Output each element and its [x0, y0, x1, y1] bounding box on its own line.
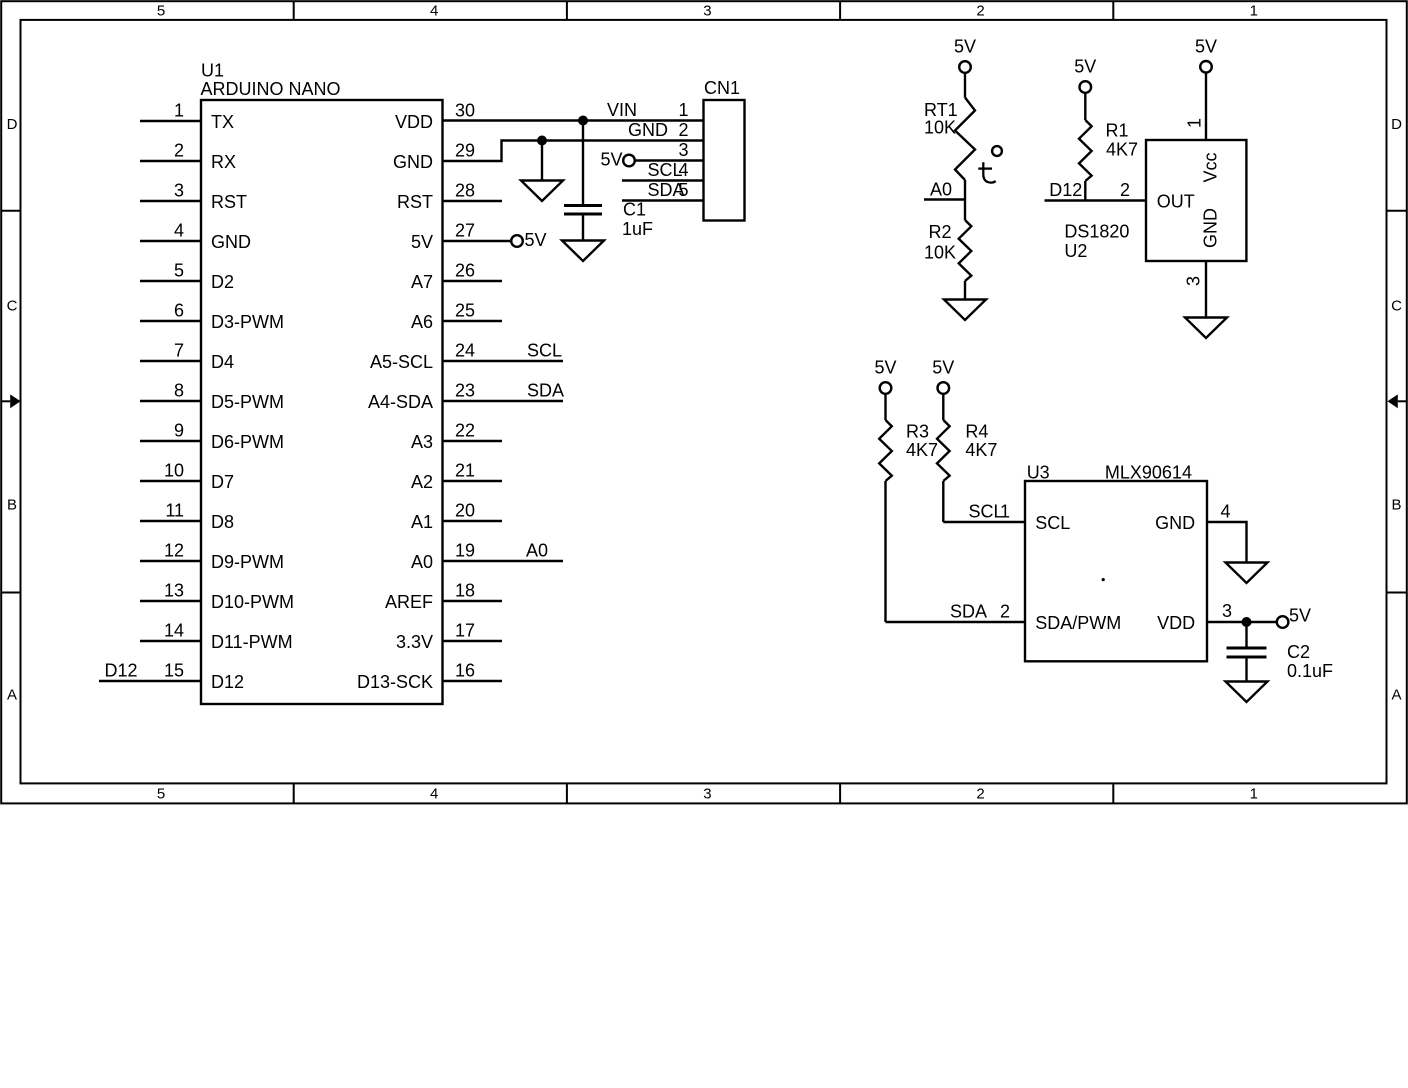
resistor R2 [959, 220, 972, 281]
svg-text:DS1820: DS1820 [1064, 222, 1129, 242]
svg-text:5V: 5V [954, 37, 976, 57]
svg-text:1: 1 [678, 100, 688, 120]
svg-text:SCL: SCL [527, 341, 562, 361]
svg-text:18: 18 [455, 581, 475, 601]
wire 5V to R1 [1084, 93, 1086, 120]
row dividers left [1, 211, 20, 593]
U1 value label ARDUINO NANO [201, 79, 341, 99]
U1 pin 22 name A3 [411, 432, 433, 452]
svg-text:U2: U2 [1064, 241, 1087, 261]
R4 reference label [965, 421, 988, 441]
U1 pin 10 number [164, 461, 184, 481]
U1 pin 30 number [455, 101, 475, 121]
svg-text:5: 5 [174, 261, 184, 281]
U1 reference label [201, 61, 224, 81]
U3 pin 1 name SCL [1035, 513, 1070, 533]
svg-text:D9-PWM: D9-PWM [211, 552, 284, 572]
CN1 pin 5 number [678, 180, 688, 200]
U1 pin 14 number [164, 621, 184, 641]
U3 pin 2 number [1000, 602, 1010, 622]
R1 value label 4K7 [1106, 139, 1138, 159]
svg-text:10: 10 [164, 461, 184, 481]
svg-text:B: B [7, 497, 17, 514]
svg-text:C: C [1391, 298, 1402, 315]
C1 reference label [623, 200, 646, 220]
wire R1 to D12 net [1084, 181, 1086, 201]
svg-text:A2: A2 [411, 472, 433, 492]
net label D12 at U1 pin 15 [105, 661, 138, 681]
CN1 pin 3 number [678, 140, 688, 160]
svg-text:D10-PWM: D10-PWM [211, 592, 294, 612]
net label D12 at U2 [1049, 180, 1082, 200]
U1 pin 3 RST wire [140, 200, 201, 202]
U1 pin 4 GND wire [140, 240, 201, 242]
svg-text:VDD: VDD [395, 112, 433, 132]
resistor R4 [937, 420, 950, 481]
U1 pin 2 name RX [211, 152, 236, 172]
power flag 5V above R3 [874, 358, 896, 394]
U1 pin 9 D6-PWM wire [140, 440, 201, 442]
wire junction to C2 [1245, 622, 1247, 648]
power flag 5V at U3 pin3 [1277, 606, 1311, 628]
wire node A0 [924, 198, 965, 200]
U1 pin 29 name GND [393, 152, 433, 172]
svg-text:C1: C1 [623, 200, 646, 220]
svg-text:GND: GND [393, 152, 433, 172]
U1 pin 25 name A6 [411, 312, 433, 332]
junction on GND wire [537, 136, 547, 146]
CN1 pin 4 number [678, 160, 688, 180]
svg-text:3: 3 [703, 2, 711, 19]
U1 pin 21 number [455, 461, 475, 481]
svg-text:RST: RST [211, 192, 247, 212]
svg-text:A6: A6 [411, 312, 433, 332]
U1 pin 24 number [455, 341, 475, 361]
svg-text:2: 2 [678, 120, 688, 140]
svg-text:A: A [1391, 686, 1401, 703]
centre arrow left [1, 394, 20, 408]
net label SDA at CN1 pin5 [648, 180, 685, 200]
svg-text:D12: D12 [1049, 180, 1082, 200]
U3 pin 1 number [1000, 502, 1010, 522]
U1 pin 28 RST wire [443, 200, 503, 202]
net label A0 at U1 pin19 [526, 541, 548, 561]
wire R2 to ground [964, 281, 966, 300]
svg-text:U3: U3 [1027, 463, 1050, 483]
svg-text:5V: 5V [525, 230, 547, 250]
U1 pin 18 number [455, 581, 475, 601]
U1 pin 17 number [455, 621, 475, 641]
junction at C2 top node [1242, 617, 1252, 627]
IC U2 body [1146, 140, 1246, 261]
svg-text:R4: R4 [965, 421, 988, 441]
CN1 pin 2 number [678, 120, 688, 140]
wire junction to C1 [582, 121, 584, 206]
svg-text:6: 6 [174, 301, 184, 321]
svg-text:2: 2 [1000, 602, 1010, 622]
svg-text:29: 29 [455, 141, 475, 161]
wire RT1 to node A0 [964, 180, 966, 200]
U1 pin 23 number [455, 381, 475, 401]
U1 pin 15 D12 wire [99, 680, 201, 682]
U1 pin 23 A4-SDA wire [443, 400, 564, 402]
svg-text:5V: 5V [1289, 606, 1311, 626]
U1 pin 13 number [164, 581, 184, 601]
CN1 reference label [704, 78, 740, 98]
svg-text:5V: 5V [932, 358, 954, 378]
U1 pin 14 name D11-PWM [211, 632, 293, 652]
svg-text:MLX90614: MLX90614 [1105, 463, 1192, 483]
svg-text:GND: GND [628, 120, 668, 140]
U1 pin 19 number [455, 541, 475, 561]
U1 pin 20 number [455, 501, 475, 521]
U1 pin 15 name D12 [211, 672, 244, 692]
U1 pin 8 number [174, 381, 184, 401]
svg-text:TX: TX [211, 112, 234, 132]
centre arrow right [1388, 394, 1407, 408]
U1 pin 16 D13-SCK wire [443, 680, 503, 682]
svg-text:D11-PWM: D11-PWM [211, 632, 293, 652]
capacitor C2 [1227, 648, 1267, 657]
CN1 pin 1 number [678, 100, 688, 120]
wire VDD U1 pin30 to CN1 pin1 (VIN) [443, 119, 704, 121]
svg-text:GND: GND [1201, 208, 1221, 248]
svg-text:Vcc: Vcc [1201, 152, 1221, 182]
wire 5V to U2 Vcc pin1 [1205, 73, 1207, 140]
svg-text:2: 2 [976, 786, 984, 803]
ground symbol below GND wire [521, 141, 563, 202]
column dividers top [294, 1, 1114, 20]
svg-text:B: B [1391, 497, 1401, 514]
U3 pin 3 name VDD [1157, 613, 1195, 633]
net label GND [628, 120, 668, 140]
U1 pin 15 number [164, 661, 184, 681]
R3 value label 4K7 [906, 440, 938, 460]
R3 reference label [906, 421, 929, 441]
svg-text:7: 7 [174, 341, 184, 361]
connector CN1 body [704, 100, 745, 221]
U3 value label MLX90614 [1105, 463, 1192, 483]
svg-text:4K7: 4K7 [906, 440, 938, 460]
svg-text:27: 27 [455, 221, 475, 241]
svg-text:5V: 5V [411, 232, 433, 252]
svg-text:R2: R2 [929, 222, 952, 242]
U1 pin 27 number [455, 221, 475, 241]
svg-text:2: 2 [1120, 180, 1130, 200]
svg-text:D8: D8 [211, 512, 234, 532]
U1 pin 16 name D13-SCK [357, 672, 433, 692]
svg-text:A5-SCL: A5-SCL [370, 352, 433, 372]
U1 pin 5 number [174, 261, 184, 281]
svg-text:3: 3 [703, 786, 711, 803]
U1 pin 28 name RST [397, 192, 433, 212]
svg-text:D13-SCK: D13-SCK [357, 672, 433, 692]
column labels top [157, 2, 1258, 19]
U3 reference label [1027, 463, 1050, 483]
wire 5V to R4 [942, 394, 944, 420]
wire SCL net to U3 [943, 521, 1025, 523]
ground symbol below R2 [944, 300, 986, 321]
R2 reference label [929, 222, 952, 242]
U1 pin 4 name GND [211, 232, 251, 252]
U1 pin 2 number [174, 141, 184, 161]
U1 pin 1 name TX [211, 112, 234, 132]
R1 reference label [1106, 121, 1129, 141]
U1 pin 19 name A0 [411, 552, 433, 572]
svg-text:21: 21 [455, 461, 475, 481]
svg-text:1: 1 [1250, 786, 1258, 803]
svg-text:23: 23 [455, 381, 475, 401]
resistor R1 [1079, 120, 1092, 181]
U1 pin 6 D3-PWM wire [140, 320, 201, 322]
svg-text:D: D [7, 116, 18, 133]
RT1 value label 10K [924, 118, 956, 138]
svg-text:C: C [7, 298, 18, 315]
U1 pin 14 D11-PWM wire [140, 640, 201, 642]
R4 value label 4K7 [965, 440, 997, 460]
U1 pin 10 D7 wire [140, 480, 201, 482]
U1 pin 11 name D8 [211, 512, 234, 532]
wire C1 to ground [582, 214, 584, 241]
net label VIN [607, 100, 637, 120]
RT1 reference label [924, 100, 958, 120]
U1 pin 5 name D2 [211, 272, 234, 292]
svg-text:8: 8 [174, 381, 184, 401]
wire U3 VDD pin3 to 5V [1207, 621, 1277, 623]
svg-text:AREF: AREF [385, 592, 433, 612]
U1 pin 22 number [455, 421, 475, 441]
U1 pin 16 number [455, 661, 475, 681]
svg-text:A0: A0 [930, 180, 952, 200]
svg-text:5V: 5V [1195, 36, 1217, 56]
wire node A0 to R2 [964, 200, 966, 221]
U1 pin 23 name A4-SDA [368, 392, 433, 412]
svg-text:1: 1 [1185, 118, 1205, 128]
U1 pin 11 number [165, 501, 184, 521]
net label SCL at U1 pin24 [527, 341, 562, 361]
U1 pin 12 name D9-PWM [211, 552, 284, 572]
U2 pin 3 number [1184, 276, 1204, 286]
U1 pin 29 number [455, 141, 475, 161]
wire C2 to ground [1245, 657, 1247, 682]
sheet outer border [1, 1, 1407, 803]
svg-text:A0: A0 [411, 552, 433, 572]
U1 pin 13 D10-PWM wire [140, 600, 201, 602]
junction at C1 top node [578, 116, 588, 126]
svg-text:4K7: 4K7 [1106, 139, 1138, 159]
svg-text:1: 1 [1000, 502, 1010, 522]
U2 pin 2 number [1120, 180, 1130, 200]
U3 symbol dot [1102, 578, 1105, 581]
svg-text:SDA/PWM: SDA/PWM [1035, 613, 1121, 633]
svg-text:RST: RST [397, 192, 433, 212]
svg-text:1: 1 [174, 101, 184, 121]
svg-text:26: 26 [455, 261, 475, 281]
svg-text:22: 22 [455, 421, 475, 441]
U1 pin 8 D5-PWM wire [140, 400, 201, 402]
U3 pin 3 number [1222, 601, 1232, 621]
U1 pin 27 name 5V [411, 232, 433, 252]
column dividers bottom [294, 783, 1114, 803]
U2 value label DS1820 [1064, 222, 1129, 242]
svg-text:19: 19 [455, 541, 475, 561]
svg-text:20: 20 [455, 501, 475, 521]
ground symbol below U3 pin4 [1226, 563, 1268, 584]
svg-text:A1: A1 [411, 512, 433, 532]
U1 pin 5 D2 wire [140, 280, 201, 282]
svg-text:30: 30 [455, 101, 475, 121]
svg-text:3: 3 [1222, 601, 1232, 621]
U1 pin 21 A2 wire [443, 480, 503, 482]
row labels right [1391, 116, 1402, 703]
net label SCL at CN1 pin4 [648, 160, 683, 180]
power flag 5V above RT1 [954, 37, 976, 73]
svg-text:D12: D12 [105, 661, 138, 681]
U1 pin 10 name D7 [211, 472, 234, 492]
svg-text:D12: D12 [211, 672, 244, 692]
U1 pin 7 D4 wire [140, 360, 201, 362]
svg-text:SCL: SCL [969, 502, 1004, 522]
wire CN1 pin5 (SDA) [622, 199, 704, 201]
svg-text:5V: 5V [600, 150, 622, 170]
ground symbol below U2 [1185, 318, 1227, 339]
svg-text:14: 14 [164, 621, 184, 641]
U1 pin 19 A0 wire [443, 560, 564, 562]
wire U2 GND pin3 to ground [1205, 261, 1207, 318]
U1 pin 4 number [174, 221, 184, 241]
svg-text:SDA: SDA [950, 602, 987, 622]
wire 5V to RT1 [964, 73, 966, 98]
svg-text:SDA: SDA [648, 180, 685, 200]
power flag 5V above R4 [932, 358, 954, 394]
wire R4 to SCL net [942, 481, 944, 522]
svg-text:VDD: VDD [1157, 613, 1195, 633]
U1 pin 21 name A2 [411, 472, 433, 492]
power flag 5V at U1 pin27 [511, 230, 546, 250]
U3 pin 4 number [1221, 502, 1231, 522]
ground symbol below C1 [562, 241, 604, 262]
svg-text:4: 4 [174, 221, 184, 241]
capacitor C1 [564, 206, 602, 215]
U1 pin 3 name RST [211, 192, 247, 212]
svg-text:28: 28 [455, 181, 475, 201]
U1 pin 9 number [174, 421, 184, 441]
svg-text:C2: C2 [1287, 642, 1310, 662]
U1 pin 24 A5-SCL wire [443, 360, 564, 362]
svg-text:4: 4 [430, 786, 438, 803]
svg-text:5: 5 [157, 786, 165, 803]
svg-text:4K7: 4K7 [965, 440, 997, 460]
svg-text:16: 16 [455, 661, 475, 681]
svg-text:U1: U1 [201, 61, 224, 81]
svg-text:A0: A0 [526, 541, 548, 561]
svg-text:R1: R1 [1106, 121, 1129, 141]
U3 pin 2 name SDA/PWM [1035, 613, 1121, 633]
U1 pin 11 D8 wire [140, 520, 201, 522]
C2 reference label [1287, 642, 1310, 662]
svg-text:1: 1 [1250, 2, 1258, 19]
svg-text:2: 2 [976, 2, 984, 19]
svg-text:A: A [7, 686, 17, 703]
U1 pin 24 name A5-SCL [370, 352, 433, 372]
svg-text:15: 15 [164, 661, 184, 681]
wire SDA net to U3 [886, 621, 1026, 623]
svg-text:D: D [1391, 116, 1402, 133]
svg-text:13: 13 [164, 581, 184, 601]
svg-text:4: 4 [430, 2, 438, 19]
U1 pin 20 A1 wire [443, 520, 503, 522]
thermistor t-degree icon [978, 146, 1002, 183]
wire GND U1 pin29 jog to CN1 pin2 [443, 141, 704, 162]
svg-text:GND: GND [211, 232, 251, 252]
svg-text:10K: 10K [924, 243, 956, 263]
U1 pin 3 number [174, 181, 184, 201]
svg-text:D7: D7 [211, 472, 234, 492]
U3 pin 4 name GND [1155, 513, 1195, 533]
U1 pin 28 number [455, 181, 475, 201]
U1 pin 22 A3 wire [443, 440, 503, 442]
svg-text:SCL: SCL [1035, 513, 1070, 533]
svg-text:12: 12 [164, 541, 184, 561]
power flag 5V at CN1 pin3 [600, 150, 634, 170]
row labels left [7, 116, 18, 703]
R2 value label 10K [924, 243, 956, 263]
U1 pin 18 AREF wire [443, 600, 503, 602]
IC U3 body [1025, 481, 1207, 661]
svg-text:4: 4 [1221, 502, 1231, 522]
svg-text:D6-PWM: D6-PWM [211, 432, 284, 452]
net label SDA at U1 pin23 [527, 381, 564, 401]
svg-text:D4: D4 [211, 352, 234, 372]
U1 pin 9 name D6-PWM [211, 432, 284, 452]
U1 pin 30 name VDD [395, 112, 433, 132]
U1 pin 13 name D10-PWM [211, 592, 294, 612]
sheet inner border [21, 20, 1387, 784]
wire R3 to SDA net [884, 481, 886, 622]
thermistor RT1 [955, 98, 975, 181]
svg-text:A7: A7 [411, 272, 433, 292]
row dividers right [1387, 211, 1407, 593]
ground symbol below C2 [1226, 682, 1268, 703]
U2 pin 1 name Vcc [1201, 152, 1221, 182]
svg-text:1uF: 1uF [622, 219, 653, 239]
U1 pin 17 name 3.3V [396, 632, 433, 652]
svg-text:11: 11 [165, 501, 184, 521]
U1 pin 26 A7 wire [443, 280, 503, 282]
column labels bottom [157, 786, 1258, 803]
svg-text:D5-PWM: D5-PWM [211, 392, 284, 412]
svg-text:5: 5 [157, 2, 165, 19]
U1 pin 26 number [455, 261, 475, 281]
U1 pin 20 name A1 [411, 512, 433, 532]
svg-text:2: 2 [174, 141, 184, 161]
U1 pin 7 name D4 [211, 352, 234, 372]
svg-text:SCL: SCL [648, 160, 683, 180]
U1 pin 6 name D3-PWM [211, 312, 284, 332]
U1 pin 8 name D5-PWM [211, 392, 284, 412]
svg-text:10K: 10K [924, 118, 956, 138]
net label SCL at U3 [969, 502, 1004, 522]
svg-text:25: 25 [455, 301, 475, 321]
IC U1 body [201, 100, 443, 704]
U1 pin 1 number [174, 101, 184, 121]
wire D12 net to U2 OUT [1045, 199, 1147, 201]
svg-text:ARDUINO NANO: ARDUINO NANO [201, 79, 341, 99]
svg-text:3: 3 [174, 181, 184, 201]
svg-text:SDA: SDA [527, 381, 564, 401]
svg-text:24: 24 [455, 341, 475, 361]
U2 pin 2 name OUT [1157, 191, 1195, 211]
